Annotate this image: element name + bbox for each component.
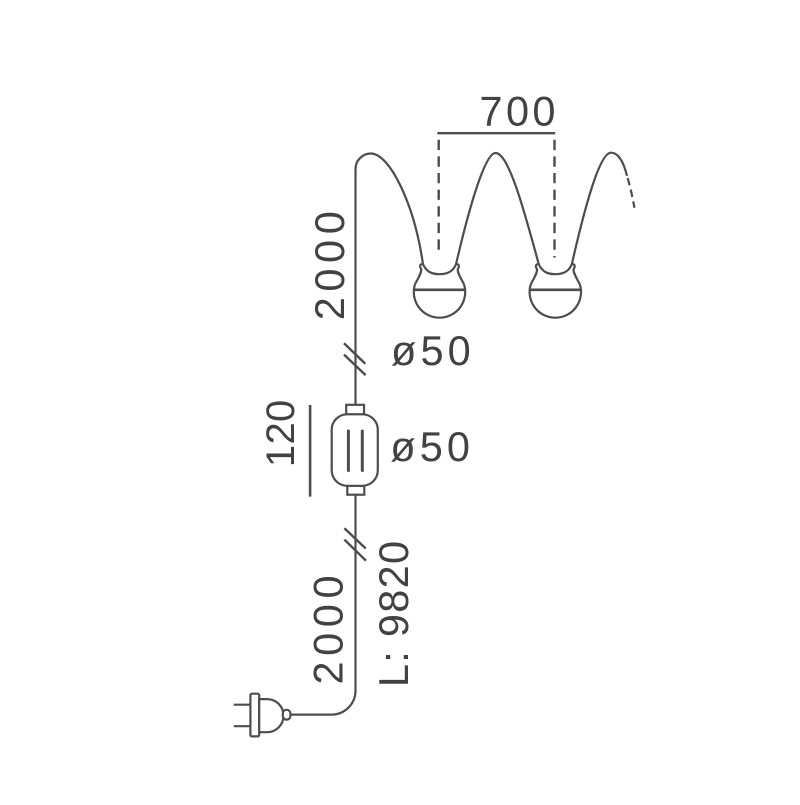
svg-text:ø50: ø50 bbox=[391, 327, 475, 374]
svg-text:700: 700 bbox=[479, 87, 558, 134]
bulb B1 socket collar with horns bbox=[415, 264, 464, 284]
bulb B2 equator line bbox=[529, 288, 581, 291]
label L: 9820 (total length) bbox=[370, 540, 417, 688]
dimmer capsule body bbox=[332, 414, 378, 486]
bulb B1 glass globe (lower arc) bbox=[414, 285, 465, 318]
plug face plate bbox=[250, 694, 259, 737]
cable break mark (lower, double slash) bbox=[344, 528, 366, 561]
plug cable exit nub bbox=[283, 710, 291, 720]
extension dashed line at bulb 2 centre bbox=[553, 140, 555, 258]
label o50 (bulb diameter) bbox=[391, 327, 475, 374]
label 2000 (lower cable run) bbox=[305, 570, 352, 685]
dimmer capsule inner rocker lines bbox=[348, 431, 362, 471]
plug prong upper bbox=[234, 704, 251, 706]
svg-text:2000: 2000 bbox=[305, 570, 352, 685]
label o50 (capsule diameter) bbox=[390, 423, 474, 470]
plug body dome bbox=[259, 699, 283, 732]
wire dashed continuation tail after third peak bbox=[628, 178, 635, 208]
cable break mark (upper, double slash) bbox=[344, 343, 366, 375]
label 2000 (upper cable run) bbox=[306, 206, 353, 321]
label 120 (capsule length) bbox=[259, 399, 303, 467]
svg-text:L: 9820: L: 9820 bbox=[370, 540, 417, 688]
dimension line 120 (capsule height) bbox=[309, 405, 312, 497]
label 700 bbox=[479, 87, 558, 134]
svg-text:120: 120 bbox=[259, 399, 303, 467]
bulb B1 equator line bbox=[414, 288, 466, 291]
plug prong lower bbox=[234, 725, 251, 727]
dimmer capsule top tab bbox=[346, 405, 364, 415]
dimension line 700 (between bulb centres) bbox=[437, 132, 555, 134]
bulb B2 glass globe (lower arc) bbox=[530, 285, 581, 318]
svg-text:2000: 2000 bbox=[306, 206, 353, 321]
wire main cable: plug to top, vertical run, over first peak down to bulb 1 bbox=[291, 154, 424, 715]
dimmer capsule bottom tab bbox=[347, 486, 364, 495]
wire festoon span: bulb 1 to bulb 2 over second peak bbox=[456, 153, 539, 264]
svg-text:ø50: ø50 bbox=[390, 423, 474, 470]
bulb B2 socket collar with horns bbox=[531, 264, 580, 284]
wire festoon span: bulb 2 up over third peak, solid part bbox=[572, 153, 627, 265]
extension dashed line at bulb 1 centre bbox=[438, 140, 440, 256]
